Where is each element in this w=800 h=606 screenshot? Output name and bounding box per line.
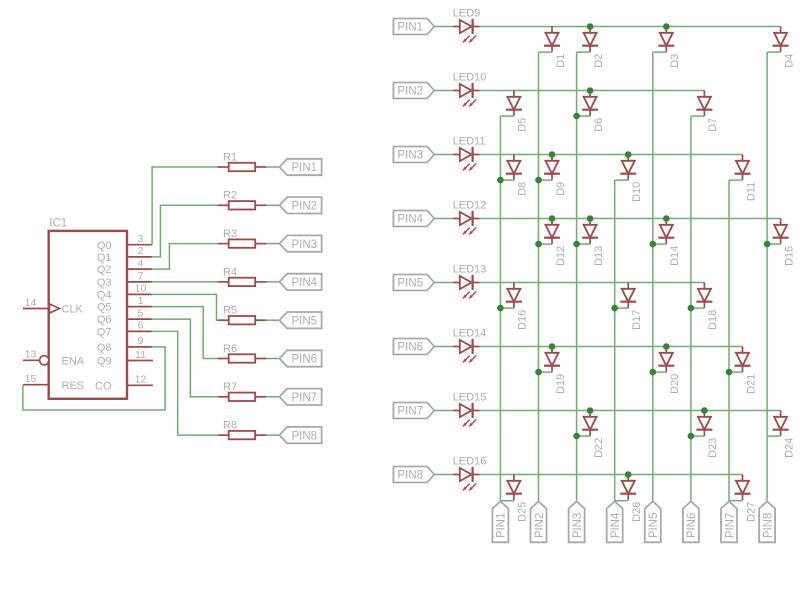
- svg-text:D14: D14: [669, 246, 681, 266]
- svg-text:R3: R3: [223, 228, 237, 240]
- wire D20 cathode to column PIN5: [653, 371, 667, 373]
- svg-text:Q2: Q2: [97, 264, 112, 276]
- svg-text:D23: D23: [707, 438, 719, 458]
- wire row net LED10: [480, 90, 705, 92]
- junction D10 anode on row net: [625, 151, 632, 158]
- wire flag to LED12: [434, 218, 453, 220]
- diode D7: [696, 91, 719, 132]
- pin 14 (CLK) of IC1: [23, 297, 84, 316]
- node flag PIN7 (bottom column): [721, 501, 737, 542]
- junction D14 cathode on column net: [650, 241, 657, 248]
- diode D23: [696, 411, 719, 458]
- svg-text:Q7: Q7: [97, 327, 112, 339]
- wire row net LED14: [480, 346, 743, 348]
- diode D2: [582, 27, 605, 68]
- svg-text:Q8: Q8: [97, 342, 112, 354]
- svg-text:PIN3: PIN3: [572, 513, 584, 539]
- wire D19 cathode to column PIN2: [539, 371, 553, 373]
- junction D15 cathode on column net: [764, 241, 771, 248]
- wire Q5 to R6: [152, 307, 218, 359]
- svg-text:D1: D1: [555, 54, 567, 68]
- svg-text:15: 15: [25, 373, 37, 385]
- node flag PIN7: [279, 389, 321, 405]
- pin 4 (Q2) of IC1: [97, 257, 152, 276]
- svg-text:PIN5: PIN5: [397, 278, 423, 290]
- svg-text:14: 14: [25, 297, 37, 309]
- junction D16 cathode on column net: [497, 305, 504, 312]
- wire D5 cathode to column PIN1: [500, 115, 514, 117]
- svg-text:D12: D12: [555, 246, 567, 266]
- node flag PIN4 (row 4): [393, 211, 434, 227]
- svg-text:11: 11: [135, 349, 146, 361]
- svg-text:7: 7: [138, 270, 144, 282]
- svg-text:Q3: Q3: [97, 277, 112, 289]
- wire flag to LED10: [434, 90, 453, 92]
- junction D14 anode on row net: [663, 215, 670, 222]
- junction D8 cathode on column net: [497, 177, 504, 184]
- junction D20 anode on row net: [663, 343, 670, 350]
- wire Q3 to R4: [152, 281, 218, 283]
- wire Q2 to R3: [152, 244, 218, 270]
- svg-text:LED13: LED13: [453, 264, 487, 276]
- svg-text:CO: CO: [95, 380, 112, 392]
- diode D4: [773, 27, 796, 68]
- wire D27 cathode to column PIN7: [729, 500, 743, 502]
- wire flag to LED16: [434, 474, 453, 476]
- svg-text:13: 13: [25, 349, 37, 361]
- svg-text:Q9: Q9: [97, 356, 112, 368]
- diode D25: [506, 475, 529, 522]
- svg-text:R8: R8: [223, 420, 237, 432]
- svg-text:3: 3: [138, 233, 144, 245]
- svg-text:D25: D25: [517, 502, 529, 522]
- op-amp IC1 counter body: [49, 231, 127, 399]
- junction D2 anode on row net: [587, 23, 594, 30]
- junction D19 anode on row net: [549, 343, 556, 350]
- junction D20 cathode on column net: [650, 369, 657, 376]
- junction D22 anode on row net: [587, 407, 594, 414]
- diode D9: [544, 155, 567, 196]
- pin 1 (Q5) of IC1: [97, 295, 152, 314]
- svg-text:D13: D13: [593, 246, 605, 266]
- LED LED12: [453, 200, 487, 235]
- svg-text:PIN2: PIN2: [534, 513, 546, 539]
- wire flag to LED11: [434, 154, 453, 156]
- svg-text:2: 2: [138, 245, 144, 257]
- diode D6: [582, 91, 605, 132]
- node flag PIN5: [279, 312, 321, 328]
- wire row net LED11: [480, 154, 743, 156]
- wire row net LED12: [480, 218, 781, 220]
- wire D25 cathode to column PIN1: [500, 500, 514, 502]
- node flag PIN2 (bottom column): [531, 501, 547, 542]
- svg-text:PIN8: PIN8: [397, 470, 423, 482]
- diode D22: [582, 411, 605, 458]
- pin 13 (ENA) of IC1 with inverter bubble: [23, 349, 85, 368]
- pin 2 (Q1) of IC1: [97, 245, 152, 264]
- svg-text:D27: D27: [745, 502, 757, 522]
- svg-text:D18: D18: [707, 310, 719, 330]
- diode D1: [544, 27, 567, 68]
- wire flag to LED9: [434, 26, 453, 28]
- wire D24 cathode to column PIN8: [767, 435, 781, 437]
- diode D3: [658, 27, 681, 68]
- resistor R1: [218, 151, 267, 171]
- pin 15 (RES) of IC1: [23, 373, 84, 392]
- svg-text:PIN7: PIN7: [397, 406, 423, 418]
- wire Q7 to R8: [152, 331, 218, 435]
- svg-text:PIN2: PIN2: [397, 86, 423, 98]
- wire D8 cathode to column PIN1: [500, 179, 514, 181]
- diode D24: [773, 411, 796, 458]
- wire D4 cathode to column PIN8: [767, 51, 781, 53]
- wire R6 to flag PIN6: [266, 358, 279, 360]
- junction D23 anode on row net: [701, 407, 708, 414]
- svg-text:Q5: Q5: [97, 302, 112, 314]
- node flag PIN4: [279, 274, 321, 290]
- resistor R8: [218, 420, 267, 440]
- svg-text:PIN5: PIN5: [292, 315, 318, 327]
- node flag PIN3: [279, 235, 321, 251]
- svg-text:R5: R5: [223, 305, 237, 317]
- node flag PIN1 (row 1): [393, 19, 434, 35]
- wire row net LED15: [480, 410, 781, 412]
- diode D14: [658, 219, 681, 266]
- junction D22 cathode on column net: [573, 433, 580, 440]
- svg-text:D26: D26: [631, 502, 643, 522]
- wire column net PIN4 vertical: [614, 180, 616, 501]
- junction D13 cathode on column net: [573, 241, 580, 248]
- wire R3 to flag PIN3: [266, 243, 279, 245]
- wire column net PIN1 vertical: [499, 116, 501, 501]
- svg-text:PIN6: PIN6: [397, 342, 423, 354]
- wire D12 cathode to column PIN2: [539, 243, 553, 245]
- wire Q1 to R2: [152, 205, 218, 257]
- wire R7 to flag PIN7: [266, 396, 279, 398]
- wire D9 cathode to column PIN2: [539, 179, 553, 181]
- wire Q8 to RES: [23, 347, 165, 410]
- wire D15 cathode to column PIN8: [767, 243, 781, 245]
- wire D10 cathode to column PIN4: [615, 179, 629, 181]
- wire D3 cathode to column PIN5: [653, 51, 667, 53]
- svg-text:R1: R1: [223, 151, 237, 163]
- svg-text:Q0: Q0: [97, 240, 112, 252]
- node flag PIN5 (row 5): [393, 275, 434, 291]
- diode D10: [620, 155, 643, 202]
- pin 11 (Q9) of IC1: [97, 349, 153, 368]
- wire Q0 to R1: [152, 167, 218, 245]
- diode D8: [506, 155, 529, 196]
- wire D22 cathode to column PIN3: [577, 435, 591, 437]
- svg-text:D10: D10: [631, 182, 643, 202]
- wire D18 cathode to column PIN6: [691, 307, 705, 309]
- wire R1 to flag PIN1: [266, 166, 279, 168]
- LED LED14: [453, 328, 487, 363]
- svg-text:1: 1: [138, 295, 144, 307]
- svg-text:PIN6: PIN6: [686, 513, 698, 539]
- wire D2 cathode to column PIN3: [577, 51, 591, 53]
- svg-text:LED11: LED11: [453, 136, 486, 148]
- svg-text:D3: D3: [669, 54, 681, 68]
- svg-text:D8: D8: [517, 182, 529, 196]
- resistor R2: [218, 190, 267, 210]
- diode D16: [506, 283, 529, 330]
- svg-text:R7: R7: [223, 381, 237, 393]
- svg-text:D24: D24: [783, 438, 795, 458]
- wire D13 cathode to column PIN3: [577, 243, 591, 245]
- svg-text:IC1: IC1: [49, 218, 67, 230]
- resistor R4: [218, 266, 267, 286]
- wire D26 cathode to column PIN4: [615, 500, 629, 502]
- pin 6 (Q7) of IC1: [97, 320, 152, 339]
- diode D13: [582, 219, 605, 266]
- junction D3 anode on row net: [663, 23, 670, 30]
- svg-text:D4: D4: [783, 54, 795, 68]
- svg-text:PIN7: PIN7: [292, 392, 318, 404]
- svg-text:4: 4: [138, 257, 144, 269]
- svg-text:PIN2: PIN2: [292, 201, 318, 213]
- svg-text:D6: D6: [593, 118, 605, 132]
- svg-text:D19: D19: [555, 374, 567, 394]
- pin 7 (Q3) of IC1: [97, 270, 152, 289]
- diode D5: [506, 91, 529, 132]
- junction D17 cathode on column net: [611, 305, 618, 312]
- svg-text:PIN1: PIN1: [496, 513, 508, 539]
- node flag PIN5 (bottom column): [645, 501, 661, 542]
- svg-text:PIN1: PIN1: [397, 22, 423, 34]
- node flag PIN6: [279, 350, 321, 366]
- node flag PIN8: [279, 427, 321, 443]
- svg-text:5: 5: [138, 307, 144, 319]
- node flag PIN1 (bottom column): [492, 501, 508, 542]
- diode D17: [620, 283, 643, 330]
- junction D19 cathode on column net: [535, 369, 542, 376]
- LED LED10: [453, 72, 487, 107]
- svg-text:D5: D5: [517, 118, 529, 132]
- svg-text:D15: D15: [783, 246, 795, 266]
- wire column net PIN6 vertical: [690, 116, 692, 501]
- LED LED15: [453, 392, 487, 427]
- svg-text:D2: D2: [593, 54, 605, 68]
- junction D12 cathode on column net: [535, 241, 542, 248]
- svg-text:R4: R4: [223, 266, 237, 278]
- diode D19: [544, 347, 567, 394]
- pin 9 (Q8) of IC1: [97, 335, 152, 354]
- diode D26: [620, 475, 643, 522]
- resistor R5: [218, 305, 267, 325]
- svg-text:Q1: Q1: [97, 252, 112, 264]
- resistor R3: [218, 228, 267, 248]
- svg-text:D21: D21: [745, 374, 757, 394]
- junction D6 anode on row net: [587, 87, 594, 94]
- junction D13 anode on row net: [587, 215, 594, 222]
- wire Q4 to R5: [152, 294, 218, 320]
- wire column net PIN7 vertical: [728, 180, 730, 501]
- pin 5 (Q6) of IC1: [97, 307, 152, 326]
- svg-text:Q6: Q6: [97, 314, 112, 326]
- svg-text:CLK: CLK: [62, 304, 84, 316]
- node flag PIN8 (row 8): [393, 467, 434, 483]
- resistor R6: [218, 343, 267, 363]
- junction D18 cathode on column net: [688, 305, 695, 312]
- junction D9 cathode on column net: [535, 177, 542, 184]
- LED LED13: [453, 264, 487, 299]
- LED LED9: [453, 8, 481, 43]
- wire R2 to flag PIN2: [266, 204, 279, 206]
- svg-text:PIN4: PIN4: [397, 214, 423, 226]
- node flag PIN6 (row 6): [393, 339, 434, 355]
- svg-text:LED16: LED16: [453, 456, 487, 468]
- LED LED16: [453, 456, 487, 491]
- wire D17 cathode to column PIN4: [615, 307, 629, 309]
- svg-text:D11: D11: [745, 182, 757, 201]
- junction D26 anode on row net: [625, 471, 632, 478]
- junction D6 cathode on column net: [573, 113, 580, 120]
- svg-text:PIN6: PIN6: [292, 354, 318, 366]
- diode D20: [658, 347, 681, 394]
- junction D23 cathode on column net: [688, 433, 695, 440]
- node flag PIN8 (bottom column): [759, 501, 775, 542]
- svg-text:PIN8: PIN8: [292, 430, 318, 442]
- wire D7 cathode to column PIN6: [691, 115, 705, 117]
- pin 12 (CO) of IC1: [95, 374, 153, 393]
- wire D6 cathode to column PIN3: [577, 115, 591, 117]
- svg-text:D9: D9: [555, 182, 567, 196]
- svg-text:D16: D16: [517, 310, 529, 330]
- wire R8 to flag PIN8: [266, 434, 279, 436]
- node flag PIN2 (row 2): [393, 83, 434, 99]
- svg-text:LED10: LED10: [453, 72, 487, 84]
- wire D23 cathode to column PIN6: [691, 435, 705, 437]
- wire row net LED13: [480, 282, 705, 284]
- diode D11: [735, 155, 758, 202]
- svg-text:PIN1: PIN1: [292, 162, 318, 174]
- wire column net PIN2 vertical: [538, 52, 540, 501]
- svg-text:PIN7: PIN7: [724, 513, 736, 539]
- LED LED11: [453, 136, 486, 171]
- node flag PIN6 (bottom column): [683, 501, 699, 542]
- svg-text:PIN3: PIN3: [292, 239, 318, 251]
- svg-text:Q4: Q4: [97, 290, 112, 302]
- diode D21: [735, 347, 758, 394]
- resistor R7: [218, 381, 267, 401]
- wire D16 cathode to column PIN1: [500, 307, 514, 309]
- node flag PIN2: [279, 197, 321, 213]
- node flag PIN3 (row 3): [393, 147, 434, 163]
- pin 10 (Q4) of IC1: [97, 283, 152, 302]
- node flag PIN4 (bottom column): [607, 501, 623, 542]
- diode D15: [773, 219, 796, 266]
- svg-text:D22: D22: [593, 438, 605, 458]
- wire flag to LED15: [434, 410, 453, 412]
- wire D14 cathode to column PIN5: [653, 243, 667, 245]
- svg-text:6: 6: [138, 320, 144, 332]
- svg-text:D20: D20: [669, 374, 681, 394]
- svg-text:LED12: LED12: [453, 200, 487, 212]
- node flag PIN1: [279, 159, 321, 175]
- svg-text:LED9: LED9: [453, 8, 481, 20]
- diode D12: [544, 219, 567, 266]
- wire D11 cathode to column PIN7: [729, 179, 743, 181]
- wire column net PIN8 vertical: [766, 52, 768, 501]
- svg-text:PIN4: PIN4: [292, 277, 318, 289]
- svg-text:LED15: LED15: [453, 392, 487, 404]
- svg-text:R2: R2: [223, 190, 237, 202]
- svg-text:PIN5: PIN5: [648, 513, 660, 539]
- svg-text:D7: D7: [707, 118, 719, 132]
- svg-text:PIN3: PIN3: [397, 150, 423, 162]
- svg-text:9: 9: [138, 335, 144, 347]
- node flag PIN3 (bottom column): [569, 501, 585, 542]
- svg-text:12: 12: [135, 374, 147, 386]
- svg-text:PIN4: PIN4: [610, 512, 622, 538]
- svg-text:10: 10: [135, 283, 147, 295]
- junction D12 anode on row net: [549, 215, 556, 222]
- wire R4 to flag PIN4: [266, 281, 279, 283]
- junction D9 anode on row net: [549, 151, 556, 158]
- diode D18: [696, 283, 719, 330]
- svg-text:D17: D17: [631, 310, 643, 330]
- svg-text:LED14: LED14: [453, 328, 487, 340]
- wire D1 cathode to column PIN2: [539, 51, 553, 53]
- diode D27: [735, 475, 758, 522]
- wire column net PIN5 vertical: [652, 52, 654, 501]
- svg-text:ENA: ENA: [62, 355, 85, 367]
- wire column net PIN3 vertical: [576, 52, 578, 501]
- wire row net LED16: [480, 474, 743, 476]
- wire Q6 to R7: [152, 319, 218, 397]
- pin 3 (Q0) of IC1: [97, 233, 152, 252]
- node flag PIN7 (row 7): [393, 403, 434, 419]
- wire D21 cathode to column PIN7: [729, 371, 743, 373]
- svg-text:RES: RES: [62, 380, 85, 392]
- svg-text:PIN8: PIN8: [762, 513, 774, 539]
- wire R5 to flag PIN5: [266, 319, 279, 321]
- junction D21 cathode on column net: [726, 369, 733, 376]
- svg-text:R6: R6: [223, 343, 237, 355]
- wire flag to LED14: [434, 346, 453, 348]
- wire flag to LED13: [434, 282, 453, 284]
- wire row net LED9: [480, 26, 781, 28]
